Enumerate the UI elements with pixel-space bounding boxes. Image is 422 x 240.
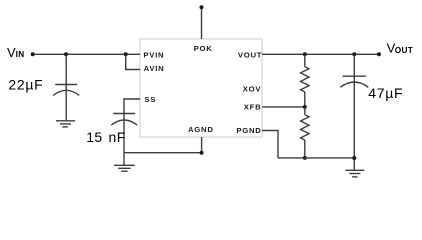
resistor R1 upper divider bbox=[301, 54, 309, 107]
ground for C1 bbox=[56, 121, 75, 127]
node R2 bottom junction dot bbox=[303, 156, 307, 160]
node XFB tap dot bbox=[303, 105, 307, 109]
node AGND junction dot bbox=[200, 151, 204, 155]
node C3 ground junction dot bbox=[352, 156, 356, 160]
node VOUT terminal dot bbox=[377, 52, 381, 56]
svg-text:47µF: 47µF bbox=[368, 85, 403, 101]
svg-text:PGND: PGND bbox=[236, 126, 261, 135]
svg-text:XFB: XFB bbox=[244, 102, 262, 111]
svg-text:SS: SS bbox=[144, 95, 156, 104]
node VIN label bbox=[7, 45, 25, 60]
node VOUT label bbox=[387, 40, 414, 55]
IC U1 regulator body bbox=[140, 39, 262, 137]
wire AVIN stub bbox=[126, 54, 140, 69]
node VIN terminal dot bbox=[31, 52, 35, 56]
wire AGND pin down bbox=[201, 137, 203, 153]
svg-text:VOUT: VOUT bbox=[238, 50, 262, 59]
svg-text:15 nF: 15 nF bbox=[86, 129, 126, 145]
wire VOUT rail bbox=[262, 53, 379, 55]
wire bottom ground rail bbox=[278, 157, 354, 159]
node junction dot AVIN branch bbox=[124, 52, 128, 56]
svg-text:IN: IN bbox=[16, 50, 25, 59]
svg-text:XOV: XOV bbox=[243, 85, 262, 94]
capacitor C3 47uF bbox=[340, 54, 368, 170]
wire POK pin to top terminal bbox=[201, 7, 203, 39]
node junction dot R1 branch bbox=[303, 52, 307, 56]
ground for C2 bbox=[114, 165, 135, 171]
wire VIN rail to PVIN bbox=[33, 53, 140, 55]
node junction dot C3 branch bbox=[352, 52, 356, 56]
svg-text:OUT: OUT bbox=[395, 46, 413, 55]
wire XFB to divider tap bbox=[262, 106, 305, 108]
pin labels bbox=[143, 44, 262, 135]
node junction dot C1 branch bbox=[64, 52, 68, 56]
svg-text:22µF: 22µF bbox=[8, 77, 43, 93]
wire SS pin to C2 bbox=[124, 99, 140, 114]
net labels bbox=[7, 40, 413, 145]
capacitor C1 22uF bbox=[53, 54, 79, 120]
capacitor C2 15nF bbox=[111, 114, 137, 166]
wire PGND pin to bottom rail bbox=[262, 131, 278, 158]
node POK terminal dot bbox=[200, 5, 204, 9]
svg-text:POK: POK bbox=[194, 44, 213, 53]
svg-text:AVIN: AVIN bbox=[144, 64, 165, 73]
resistor R2 lower divider bbox=[301, 107, 309, 158]
wire AGND rail bbox=[124, 152, 202, 154]
svg-text:PVIN: PVIN bbox=[143, 50, 164, 59]
ground for C3 bbox=[345, 170, 364, 177]
svg-text:AGND: AGND bbox=[188, 125, 214, 134]
